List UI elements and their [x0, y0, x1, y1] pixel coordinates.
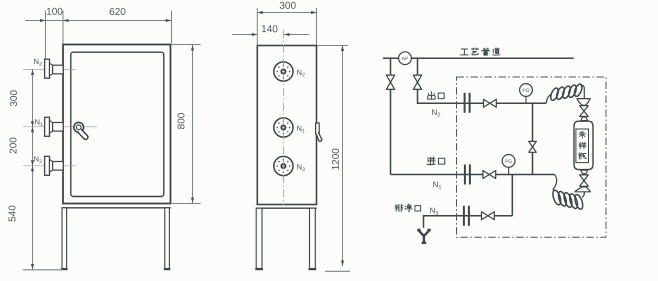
branch 1 vertical: [390, 58, 392, 174]
center dash-dot line: [282, 30, 284, 205]
valve V1 (vertical): [386, 75, 394, 89]
outlet pipe row: [418, 102, 547, 104]
union U1: [465, 93, 470, 113]
text 出口: [428, 92, 445, 99]
svg-text:540: 540: [7, 205, 18, 222]
side handle: [316, 123, 322, 141]
union U3: [464, 206, 469, 226]
valve V5 (bottle top): [580, 106, 589, 117]
right leg: [309, 208, 317, 270]
stopper bottom: [581, 170, 588, 174]
centerline nozzle N1: [23, 126, 97, 128]
dim 300 line: [257, 12, 316, 14]
svg-text:PG: PG: [522, 88, 529, 94]
bottom coil: [551, 175, 584, 211]
text 进口: [427, 157, 445, 165]
svg-text:100: 100: [46, 7, 63, 18]
left dim arrows: [31, 70, 34, 76]
svg-text:300: 300: [9, 90, 20, 107]
dim 100 extension line b: [62, 11, 64, 44]
dim 620 right extension: [171, 11, 173, 44]
nozzle N3 side view: [45, 156, 64, 175]
text 采样瓶 vertical: [579, 131, 585, 138]
ground tick left view: [23, 269, 63, 271]
nozzle N3 front: [274, 156, 293, 175]
ground tick middle view: [325, 270, 350, 272]
svg-text:AP: AP: [402, 56, 409, 62]
right leg: [164, 208, 171, 270]
valve V2 (vertical): [413, 75, 421, 89]
dim 140 line: [232, 34, 257, 36]
nozzle N1 front: [274, 118, 293, 137]
sample bottle: [574, 121, 593, 169]
dim 1200 top extension: [317, 45, 348, 47]
inlet pipe row: [391, 174, 555, 176]
drain pipe row: [424, 216, 513, 228]
funnel above bottle: [577, 99, 590, 106]
svg-text:140: 140: [261, 24, 278, 35]
valve V3 (horizontal): [484, 99, 497, 107]
centerline nozzle N3: [23, 165, 76, 167]
dim 800 extensions: [172, 44, 201, 46]
gauge PG2: [502, 155, 515, 175]
bypass vertical: [532, 103, 534, 174]
dim 1200 line: [342, 46, 344, 267]
svg-text:300: 300: [279, 1, 296, 12]
gauge PG1: [520, 84, 533, 104]
svg-text:1200: 1200: [331, 148, 342, 171]
valve V4 (vertical bypass): [529, 141, 537, 152]
cabinet door: [71, 52, 164, 196]
dim 100 arrow left: [40, 19, 46, 22]
nozzle N2 front: [274, 62, 293, 81]
dim 800 line: [192, 45, 194, 203]
dashed enclosure box: [457, 77, 607, 237]
valve V8 (horizontal): [482, 212, 495, 220]
dim 620 arrow left: [63, 19, 69, 22]
funnel below bottle: [575, 187, 591, 192]
cabinet body: [257, 46, 316, 205]
valve V6 (bottle bottom): [580, 175, 589, 186]
bottom rail: [62, 207, 171, 209]
dim 100 extension line a: [45, 11, 47, 59]
process pipe main line: [383, 57, 574, 59]
left dim line: [32, 70, 34, 270]
svg-text:PG: PG: [505, 159, 512, 165]
left leg: [255, 208, 263, 270]
valve V7 (horizontal): [483, 171, 496, 179]
nozzle N2 side view: [45, 59, 64, 78]
dim 620 arrow right: [166, 19, 172, 22]
top coil: [546, 83, 584, 103]
left leg: [61, 208, 68, 270]
dim 100/620 line: [25, 20, 172, 22]
text 排净口 N3: [395, 204, 421, 211]
text 工艺管道: [461, 48, 500, 55]
cabinet outer box: [63, 45, 171, 204]
drain connector vertical: [511, 175, 513, 216]
svg-text:800: 800: [177, 112, 188, 129]
dim 300 extensions: [256, 8, 258, 45]
nozzle N1 side view: [45, 117, 64, 136]
bottom rail: [256, 207, 317, 209]
drain Y symbol: [417, 230, 431, 243]
svg-text:620: 620: [109, 7, 126, 18]
centerline nozzle N2: [23, 69, 75, 71]
door handle: [74, 122, 88, 139]
svg-text:200: 200: [8, 137, 19, 154]
union U2: [465, 165, 470, 185]
branch 2 vertical + elbow: [418, 58, 424, 103]
stopper top: [581, 117, 588, 121]
instrument AP: [399, 52, 412, 65]
